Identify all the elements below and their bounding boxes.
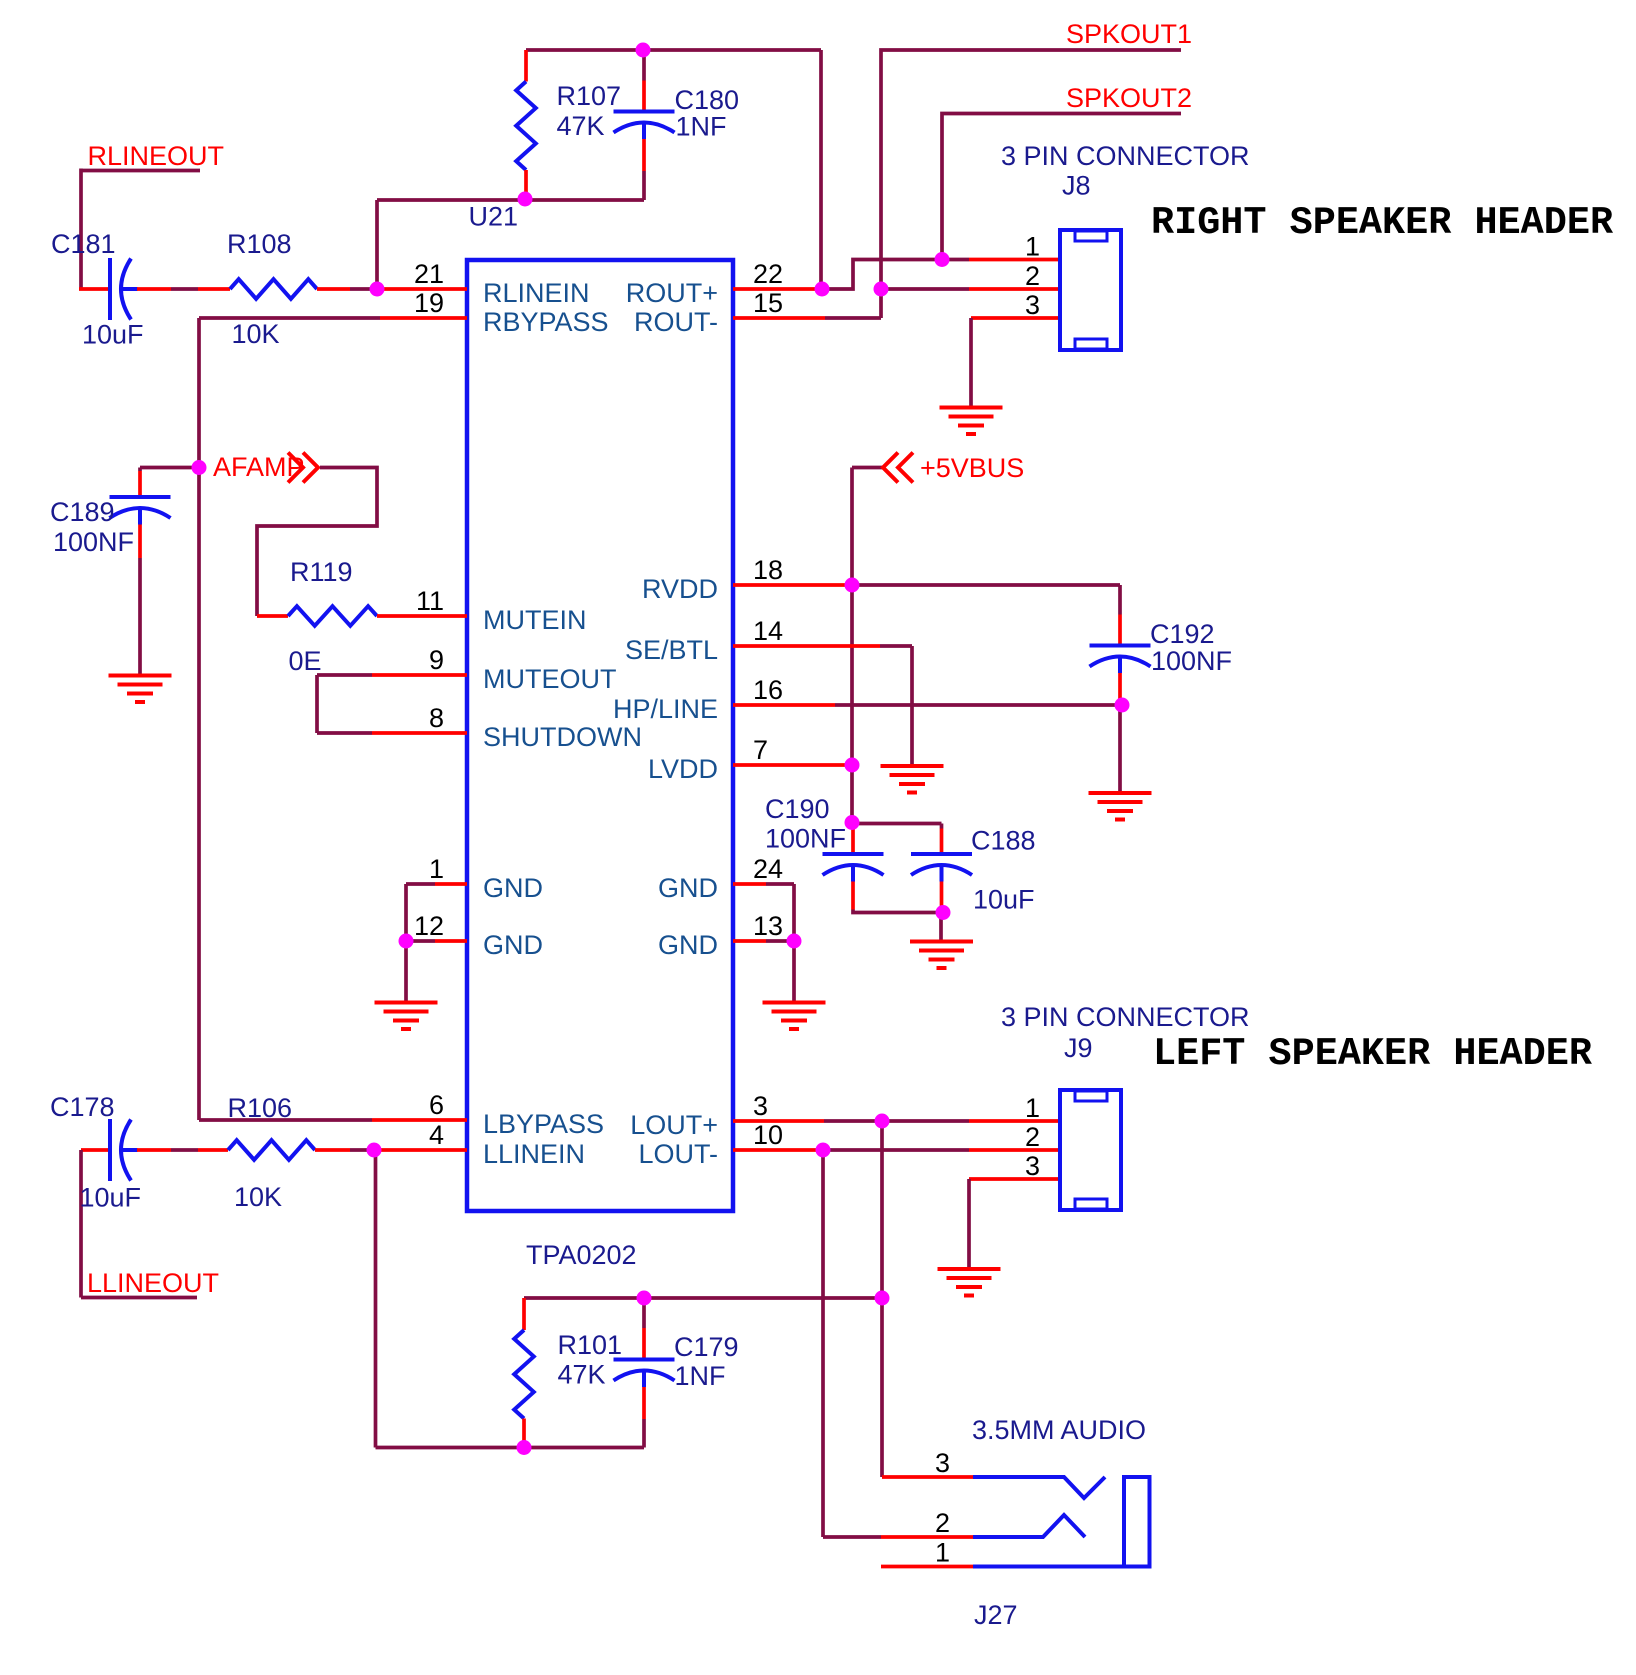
svg-text:J27: J27 bbox=[974, 1600, 1018, 1630]
svg-text:R108: R108 bbox=[227, 229, 292, 259]
svg-text:100NF: 100NF bbox=[765, 824, 846, 854]
svg-text:MUTEOUT: MUTEOUT bbox=[483, 664, 616, 694]
svg-text:R106: R106 bbox=[228, 1093, 293, 1123]
svg-text:LLINEIN: LLINEIN bbox=[483, 1139, 585, 1169]
svg-text:RIGHT SPEAKER HEADER: RIGHT SPEAKER HEADER bbox=[1151, 201, 1614, 245]
svg-text:100NF: 100NF bbox=[53, 527, 134, 557]
svg-text:21: 21 bbox=[414, 259, 444, 289]
svg-text:LEFT SPEAKER HEADER: LEFT SPEAKER HEADER bbox=[1153, 1032, 1593, 1076]
svg-text:RLINEOUT: RLINEOUT bbox=[88, 141, 225, 171]
svg-text:9: 9 bbox=[429, 645, 444, 675]
svg-text:10K: 10K bbox=[234, 1182, 282, 1212]
svg-text:1NF: 1NF bbox=[675, 1361, 726, 1391]
svg-text:8: 8 bbox=[429, 703, 444, 733]
svg-text:10uF: 10uF bbox=[80, 1183, 142, 1213]
svg-text:19: 19 bbox=[414, 288, 444, 318]
svg-text:2: 2 bbox=[935, 1508, 950, 1538]
svg-text:10uF: 10uF bbox=[973, 885, 1035, 915]
svg-text:+5VBUS: +5VBUS bbox=[920, 453, 1024, 483]
svg-text:6: 6 bbox=[429, 1090, 444, 1120]
svg-text:GND: GND bbox=[658, 873, 718, 903]
svg-text:3: 3 bbox=[1025, 290, 1040, 320]
svg-text:LVDD: LVDD bbox=[648, 754, 718, 784]
svg-text:C180: C180 bbox=[675, 85, 740, 115]
svg-text:47K: 47K bbox=[558, 1360, 606, 1390]
svg-text:R101: R101 bbox=[558, 1330, 623, 1360]
svg-text:R107: R107 bbox=[557, 81, 622, 111]
svg-text:SPKOUT1: SPKOUT1 bbox=[1066, 19, 1192, 49]
svg-text:HP/LINE: HP/LINE bbox=[613, 694, 718, 724]
svg-text:10uF: 10uF bbox=[82, 320, 144, 350]
svg-text:C192: C192 bbox=[1150, 619, 1215, 649]
svg-text:LBYPASS: LBYPASS bbox=[483, 1109, 604, 1139]
svg-text:C179: C179 bbox=[674, 1332, 739, 1362]
svg-text:12: 12 bbox=[414, 911, 444, 941]
svg-text:LOUT-: LOUT- bbox=[638, 1139, 718, 1169]
svg-text:3.5MM AUDIO: 3.5MM AUDIO bbox=[972, 1415, 1146, 1445]
svg-text:1: 1 bbox=[429, 854, 444, 884]
svg-text:C178: C178 bbox=[50, 1092, 115, 1122]
svg-text:3: 3 bbox=[753, 1091, 768, 1121]
svg-text:24: 24 bbox=[753, 854, 783, 884]
svg-text:J8: J8 bbox=[1062, 171, 1091, 201]
svg-text:RVDD: RVDD bbox=[642, 574, 718, 604]
svg-text:R119: R119 bbox=[290, 557, 353, 587]
svg-text:GND: GND bbox=[483, 930, 543, 960]
svg-text:U21: U21 bbox=[469, 202, 519, 232]
svg-text:ROUT+: ROUT+ bbox=[626, 278, 718, 308]
svg-text:3: 3 bbox=[1025, 1151, 1040, 1181]
svg-text:1: 1 bbox=[1025, 1093, 1040, 1123]
svg-text:22: 22 bbox=[753, 259, 783, 289]
svg-text:SHUTDOWN: SHUTDOWN bbox=[483, 722, 642, 752]
svg-text:14: 14 bbox=[753, 616, 783, 646]
svg-text:RBYPASS: RBYPASS bbox=[483, 307, 609, 337]
svg-text:100NF: 100NF bbox=[1151, 646, 1232, 676]
svg-text:16: 16 bbox=[753, 675, 783, 705]
svg-text:C189: C189 bbox=[50, 497, 115, 527]
svg-text:10: 10 bbox=[753, 1120, 783, 1150]
svg-text:2: 2 bbox=[1025, 1122, 1040, 1152]
svg-text:LOUT+: LOUT+ bbox=[630, 1110, 718, 1140]
svg-text:C181: C181 bbox=[51, 229, 116, 259]
svg-text:3: 3 bbox=[935, 1448, 950, 1478]
svg-text:2: 2 bbox=[1025, 261, 1040, 291]
svg-text:1NF: 1NF bbox=[676, 112, 727, 142]
svg-text:10K: 10K bbox=[232, 319, 280, 349]
svg-text:RLINEIN: RLINEIN bbox=[483, 278, 590, 308]
svg-text:C188: C188 bbox=[971, 826, 1036, 856]
svg-text:GND: GND bbox=[483, 873, 543, 903]
svg-text:SE/BTL: SE/BTL bbox=[625, 635, 718, 665]
svg-text:GND: GND bbox=[658, 930, 718, 960]
svg-text:15: 15 bbox=[753, 288, 783, 318]
svg-text:MUTEIN: MUTEIN bbox=[483, 605, 587, 635]
svg-text:TPA0202: TPA0202 bbox=[526, 1240, 637, 1270]
svg-text:3 PIN CONNECTOR: 3 PIN CONNECTOR bbox=[1001, 141, 1250, 171]
svg-text:3 PIN CONNECTOR: 3 PIN CONNECTOR bbox=[1001, 1002, 1250, 1032]
svg-text:47K: 47K bbox=[557, 111, 605, 141]
svg-text:0E: 0E bbox=[289, 646, 322, 676]
svg-text:13: 13 bbox=[753, 911, 783, 941]
svg-text:J9: J9 bbox=[1064, 1033, 1093, 1063]
svg-text:C190: C190 bbox=[765, 794, 830, 824]
svg-text:LLINEOUT: LLINEOUT bbox=[87, 1268, 219, 1298]
svg-text:4: 4 bbox=[429, 1120, 444, 1150]
svg-text:1: 1 bbox=[1025, 232, 1040, 262]
svg-text:SPKOUT2: SPKOUT2 bbox=[1066, 83, 1192, 113]
svg-text:7: 7 bbox=[753, 735, 768, 765]
svg-text:11: 11 bbox=[416, 586, 444, 616]
svg-text:18: 18 bbox=[753, 555, 783, 585]
svg-text:1: 1 bbox=[935, 1538, 950, 1568]
svg-text:ROUT-: ROUT- bbox=[634, 307, 718, 337]
